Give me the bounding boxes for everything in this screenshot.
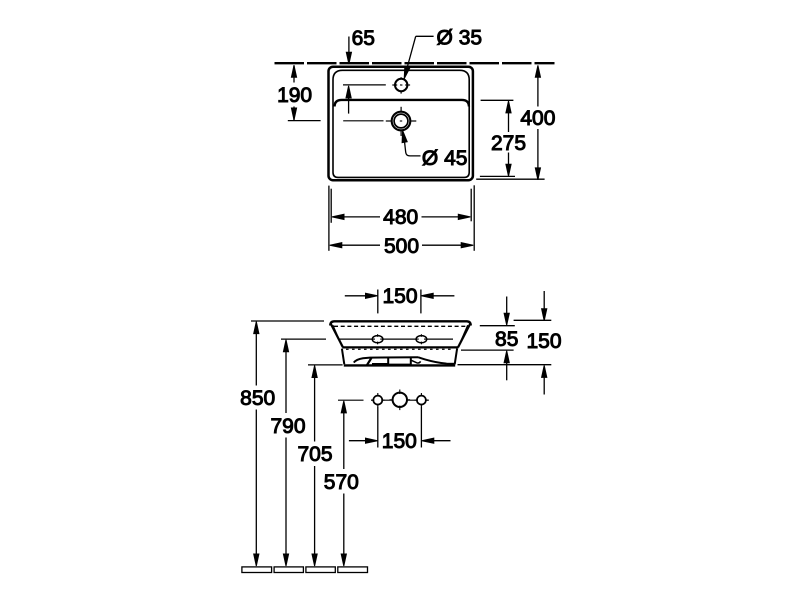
dimension 275: [480, 100, 515, 176]
hidden dashed line under body (front view): [346, 348, 454, 350]
dimension 150 drill holes spacing: [349, 407, 451, 448]
dimension 500: [330, 243, 473, 248]
dimension 400: [476, 65, 544, 180]
dimension 150 basin height: [458, 291, 552, 395]
drill template centerline: [338, 399, 429, 401]
bowl wall slant lines (front view): [333, 325, 468, 346]
svg-text:150: 150: [382, 285, 417, 308]
svg-text:150: 150: [382, 430, 417, 453]
drain hole circles (D45): [386, 112, 417, 131]
fixing holes centerline (front view): [340, 338, 454, 340]
dimension 850: [251, 321, 324, 566]
svg-text:790: 790: [270, 415, 305, 438]
dimension 705: [308, 365, 343, 566]
basin back ledge line (top view): [335, 100, 469, 107]
svg-text:Ø 45: Ø 45: [422, 147, 468, 170]
svg-text:190: 190: [277, 84, 312, 107]
basin outer outline (top view): [329, 67, 473, 181]
dimension 150 fixing holes spacing: [345, 290, 455, 314]
dimension 190: [288, 65, 321, 120]
svg-text:275: 275: [491, 132, 526, 155]
fixing holes (front view): [371, 334, 428, 344]
svg-text:500: 500: [384, 235, 419, 258]
svg-text:400: 400: [520, 107, 555, 130]
svg-text:570: 570: [324, 471, 359, 494]
svg-text:705: 705: [297, 443, 332, 466]
dimension 85: [461, 297, 515, 381]
drill hole right: [415, 393, 429, 407]
svg-text:850: 850: [240, 387, 275, 410]
faucet hole circle (D35): [392, 79, 410, 91]
faucet hole centerline: [343, 84, 386, 86]
dimension 570: [341, 401, 346, 566]
svg-text:Ø 35: Ø 35: [437, 27, 483, 50]
drill hole left: [371, 393, 385, 407]
wall hatch line (top view): [275, 62, 555, 64]
D45 leader line: [402, 130, 420, 156]
dimension 480: [332, 214, 470, 219]
vertical centerline between holes: [400, 77, 402, 136]
floor hatch tiles: [242, 567, 368, 573]
svg-text:480: 480: [383, 206, 418, 229]
extension lines below basin: [329, 185, 474, 251]
drain outlet hole (center): [390, 390, 411, 411]
D35 leader line: [404, 36, 433, 79]
foot inner contour (front view): [354, 357, 455, 365]
basin rim outline (front view): [330, 321, 470, 347]
basin inner outline (top view): [333, 70, 469, 177]
dimension 65 leader arrows: [346, 37, 352, 114]
drain hole centerline: [343, 120, 383, 122]
dimension 790: [281, 339, 326, 566]
svg-text:65: 65: [352, 27, 375, 50]
foot outline (front view): [342, 349, 457, 366]
svg-text:85: 85: [495, 328, 518, 351]
svg-text:150: 150: [526, 330, 561, 353]
hidden rim dashed line (front view): [334, 325, 467, 327]
